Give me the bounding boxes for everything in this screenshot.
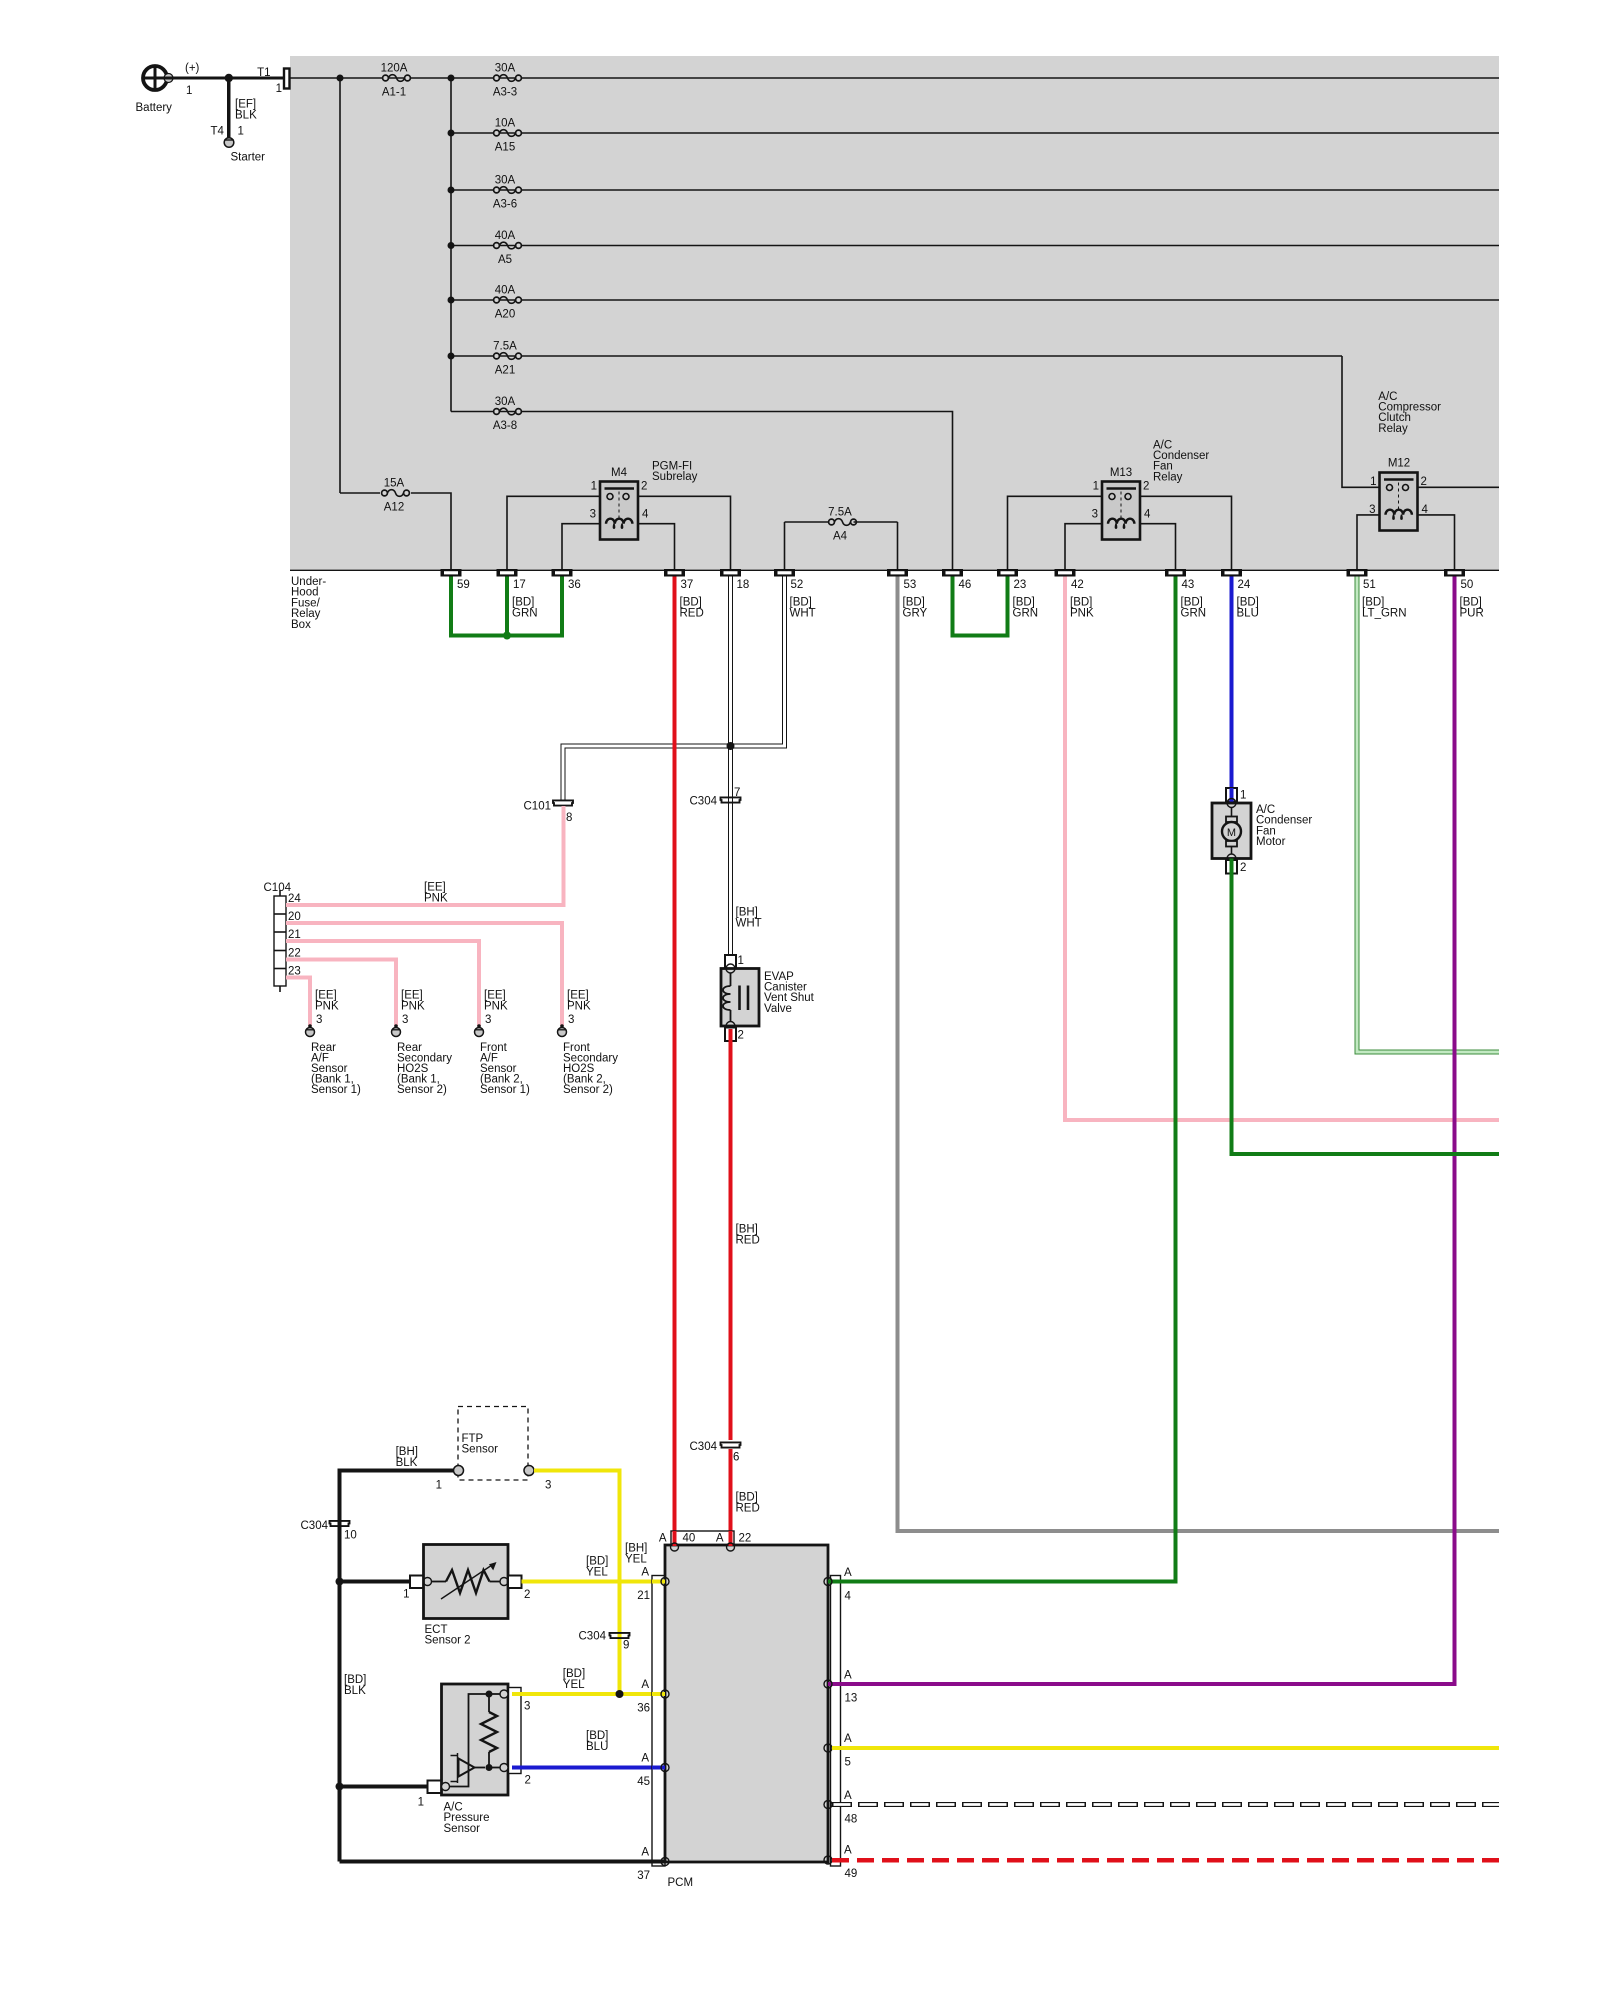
connector T1	[257, 67, 289, 95]
svg-text:A20: A20	[495, 309, 515, 321]
svg-text:24: 24	[288, 893, 301, 905]
connector C104	[264, 882, 292, 992]
fuse 30A A3-8	[493, 396, 522, 432]
black wire bottom to PCM A37	[340, 1860, 666, 1864]
connector tab 24	[1221, 569, 1251, 591]
svg-text:40A: 40A	[495, 285, 516, 297]
svg-text:2: 2	[524, 1589, 530, 1601]
svg-text:YEL: YEL	[563, 1679, 585, 1691]
pin 24	[288, 893, 301, 905]
PCM top pin labels	[659, 1533, 751, 1545]
pin 23	[288, 966, 301, 978]
connector C101	[524, 800, 574, 824]
yellow wire through bracket A36	[652, 1692, 665, 1696]
fan motor pin numbers	[1240, 790, 1246, 875]
pin 22	[288, 948, 301, 960]
EVAP terminal 2	[725, 1028, 736, 1042]
wire fuse row A5	[451, 245, 1499, 247]
EVAP pin numbers	[738, 955, 744, 1042]
svg-text:30A: 30A	[495, 175, 516, 187]
pin labels M12	[1369, 476, 1428, 516]
svg-text:PUR: PUR	[1460, 608, 1484, 620]
relay M12	[1380, 473, 1418, 531]
svg-text:M: M	[1227, 827, 1236, 839]
fuse 40A A20	[494, 285, 522, 321]
red wire C304-6 to PCM A22	[729, 1449, 733, 1546]
svg-text:7.5A: 7.5A	[493, 341, 517, 353]
wire M4 pin3 to 36	[562, 524, 600, 569]
battery B+ symbol	[142, 65, 174, 92]
connector tab 42	[1055, 569, 1084, 591]
wire M13 pin4 to 43	[1140, 524, 1176, 569]
ACP bracket	[509, 1688, 522, 1774]
label (+)	[185, 63, 200, 75]
label [BD] BLK	[344, 1674, 366, 1697]
svg-text:30A: 30A	[495, 396, 516, 408]
svg-text:3: 3	[402, 1014, 408, 1026]
svg-text:1: 1	[1240, 790, 1246, 802]
junction yellow	[616, 1690, 624, 1698]
pink wire C104-24 to C101	[286, 806, 564, 905]
junction bus x451	[448, 75, 455, 82]
label [BD] GRN at 23	[1013, 597, 1039, 620]
label [BD] BLU at 24	[1237, 597, 1259, 620]
svg-text:C304: C304	[579, 1631, 607, 1643]
svg-text:GRN: GRN	[1181, 608, 1207, 620]
blue wire ACP-2 to PCM A45	[512, 1766, 665, 1770]
svg-text:A: A	[844, 1790, 852, 1802]
label [BD] PUR at 50	[1460, 597, 1484, 620]
svg-text:PNK: PNK	[315, 1001, 339, 1013]
svg-text:3: 3	[485, 1014, 491, 1026]
svg-text:BLK: BLK	[235, 110, 257, 122]
svg-text:Sensor 1): Sensor 1)	[311, 1084, 361, 1096]
svg-text:1: 1	[591, 481, 597, 493]
svg-text:10: 10	[344, 1530, 357, 1542]
wire M12 pin2 to edge	[1418, 486, 1500, 488]
svg-text:1: 1	[738, 955, 744, 967]
light green wire 51 to edge	[1357, 577, 1499, 1053]
connector tab 46	[942, 569, 971, 591]
starter terminal	[224, 138, 234, 148]
svg-text:22: 22	[288, 948, 301, 960]
svg-text:2: 2	[738, 1030, 744, 1042]
dashed red wire A49	[832, 1858, 1499, 1863]
label [BD] LT_GRN at 51	[1362, 597, 1407, 620]
svg-text:4: 4	[845, 1591, 852, 1603]
svg-text:PNK: PNK	[424, 893, 448, 905]
label [BD] RED	[736, 1492, 760, 1515]
PCM top bracket	[671, 1531, 734, 1545]
svg-text:1: 1	[418, 1797, 424, 1809]
label [BD] BLU	[586, 1730, 608, 1753]
svg-text:PNK: PNK	[484, 1001, 508, 1013]
label PGM-FI Subrelay	[652, 461, 698, 484]
label ECT Sensor 2	[425, 1624, 471, 1647]
svg-text:A12: A12	[384, 502, 404, 514]
dashed white wire A48	[832, 1802, 1499, 1807]
ACP pin circles	[442, 1690, 509, 1791]
svg-text:37: 37	[637, 1870, 650, 1882]
svg-text:6: 6	[733, 1452, 739, 1464]
svg-text:24: 24	[1238, 579, 1251, 591]
svg-text:49: 49	[845, 1868, 858, 1880]
wire M4 pin1 to 17	[507, 496, 600, 569]
svg-text:Valve: Valve	[764, 1003, 792, 1015]
svg-text:3: 3	[590, 509, 596, 521]
svg-text:59: 59	[457, 579, 470, 591]
label M12	[1388, 458, 1410, 470]
svg-text:Motor: Motor	[1256, 836, 1286, 848]
white wire branch to C101	[563, 746, 733, 800]
svg-text:A: A	[641, 1753, 649, 1765]
relay M4	[600, 482, 638, 540]
label [BD] GRY at 53	[903, 597, 928, 620]
svg-text:Sensor 2): Sensor 2)	[563, 1084, 613, 1096]
sensor label x562	[563, 1042, 618, 1096]
label A/C Compressor Clutch Relay	[1378, 391, 1441, 435]
label [BD] RED at 37	[680, 597, 704, 620]
svg-text:Sensor 2: Sensor 2	[425, 1635, 471, 1647]
svg-text:7.5A: 7.5A	[828, 507, 852, 519]
label [BH] WHT	[736, 907, 762, 930]
gray wire 53 to edge	[898, 577, 1500, 1532]
ECT pin circles	[424, 1578, 509, 1586]
connector tab 17	[497, 569, 526, 591]
wire fuse row A15	[451, 132, 1499, 134]
wire A21 to M12 pin1	[1342, 356, 1380, 487]
connector tab 53	[887, 569, 916, 591]
svg-text:A21: A21	[495, 365, 515, 377]
svg-text:BLU: BLU	[586, 1741, 608, 1753]
svg-text:40A: 40A	[495, 230, 516, 242]
yellow wire A5 to edge	[832, 1746, 1499, 1750]
fan motor internals	[1222, 808, 1241, 855]
black wire to ECT	[340, 1580, 411, 1584]
svg-text:(+): (+)	[185, 63, 200, 75]
connector tab 23	[997, 569, 1026, 591]
label Under-Hood Fuse/Relay Box	[291, 576, 326, 631]
wire to starter	[227, 78, 230, 138]
EVAP terminal 1	[725, 955, 736, 969]
yellow wire FTP-3	[534, 1471, 620, 1695]
svg-text:20: 20	[288, 911, 301, 923]
EVAP canister vent shut valve body	[721, 969, 759, 1027]
junction row A3-6	[448, 187, 455, 194]
connector tab 18	[720, 569, 749, 591]
pin 3 sensor x310	[316, 1014, 322, 1026]
label [BD] GRN at 43	[1181, 597, 1207, 620]
svg-text:A: A	[641, 1567, 649, 1579]
svg-text:GRY: GRY	[903, 608, 928, 620]
wire A4 right to 53	[897, 522, 899, 569]
white wire 18 down to EVAP	[728, 577, 733, 956]
junction battery/starter	[225, 74, 233, 82]
svg-text:RED: RED	[736, 1235, 760, 1247]
svg-text:3: 3	[545, 1480, 551, 1492]
blue wire 24 to fan motor	[1230, 577, 1234, 791]
connector C304 pin 10	[301, 1520, 357, 1542]
svg-text:A: A	[716, 1533, 724, 1545]
svg-text:51: 51	[1363, 579, 1376, 591]
fan motor terminal 2	[1226, 860, 1237, 874]
wire M4 pin2 to 18	[638, 496, 731, 569]
svg-text:WHT: WHT	[736, 918, 762, 930]
fuse box bottom edge	[290, 569, 1499, 571]
FTP terminals	[454, 1466, 535, 1476]
label [EE] PNK sensor x562	[567, 990, 591, 1013]
svg-text:A5: A5	[498, 254, 512, 266]
svg-text:BLU: BLU	[1237, 608, 1259, 620]
svg-text:30A: 30A	[495, 63, 516, 75]
svg-text:A3-8: A3-8	[493, 420, 517, 432]
wire M12 pin4 to 50	[1418, 515, 1455, 569]
svg-text:YEL: YEL	[586, 1567, 608, 1579]
label T4	[211, 126, 225, 138]
svg-text:A: A	[844, 1670, 852, 1682]
svg-text:A4: A4	[833, 531, 848, 543]
wire M13 pin3 to 42	[1065, 524, 1102, 569]
purple wire 50 to PCM A13	[1453, 577, 1457, 1685]
pin 3 sensor x479	[485, 1014, 491, 1026]
wire M12 pin3 to 51	[1357, 515, 1380, 569]
green wire 59/17/36	[451, 577, 562, 640]
ECT resistor	[432, 1562, 501, 1599]
svg-text:1: 1	[276, 83, 282, 95]
PCM left bracket	[652, 1576, 665, 1867]
svg-text:WHT: WHT	[790, 608, 816, 620]
green wire A4 to vertical	[828, 1580, 1178, 1584]
A/C pressure sensor body	[442, 1684, 509, 1795]
junction row A21	[448, 353, 455, 360]
wire vertical bus x340	[339, 78, 341, 493]
svg-text:A15: A15	[495, 142, 515, 154]
ACP internal resistor	[481, 1691, 500, 1772]
connector tab 52	[774, 569, 803, 591]
yellow wire ECT to PCM A21	[522, 1580, 666, 1584]
fuse 30A A3-6	[493, 175, 522, 211]
svg-text:A1-1: A1-1	[382, 87, 406, 99]
svg-text:A3-6: A3-6	[493, 199, 517, 211]
pin 3 sensor x396	[402, 1014, 408, 1026]
PCM pin circles right	[824, 1578, 832, 1865]
svg-text:15A: 15A	[384, 478, 405, 490]
junction white wires	[727, 742, 735, 750]
wire M13 pin2 to 24	[1140, 496, 1232, 569]
label [EE] PNK sensor x479	[484, 990, 508, 1013]
ECT terminal 1	[410, 1576, 424, 1589]
svg-text:2: 2	[1421, 476, 1427, 488]
ACP amplifier	[451, 1753, 486, 1783]
black wire to ACP	[340, 1785, 428, 1789]
svg-text:A: A	[641, 1679, 649, 1691]
green wire fan motor to edge	[1232, 859, 1500, 1155]
pink wire C104-21 to sensor	[286, 941, 479, 1026]
svg-text:1: 1	[1370, 476, 1376, 488]
svg-text:3: 3	[568, 1014, 574, 1026]
label [BH] BLK	[396, 1446, 418, 1469]
bus row from T1	[289, 77, 1499, 79]
svg-text:1: 1	[238, 126, 244, 138]
wire fuse row A20	[451, 299, 1499, 301]
black junction ECT	[336, 1578, 344, 1586]
label [BD] GRN at 17	[512, 597, 538, 620]
under-hood fuse/relay box background	[290, 56, 1499, 571]
fan motor pin circles	[1227, 799, 1236, 864]
svg-text:2: 2	[525, 1775, 531, 1787]
svg-text:50: 50	[1461, 579, 1474, 591]
ECT sensor 2 body	[424, 1545, 509, 1619]
junction row A5	[448, 242, 455, 249]
wire fuse row A21	[451, 355, 1342, 357]
PCM pin circles left	[661, 1578, 669, 1866]
wire fuse row A3-6	[451, 189, 1499, 191]
label A/C Condenser Fan Relay	[1153, 439, 1209, 483]
svg-text:Starter: Starter	[231, 152, 266, 164]
sensor label x310	[311, 1042, 361, 1096]
blue wire through bracket A45	[652, 1766, 665, 1770]
PCM right pin labels	[844, 1567, 857, 1880]
svg-text:BLK: BLK	[344, 1685, 366, 1697]
pin 20	[288, 911, 301, 923]
starter label	[231, 152, 266, 164]
PCM pin circles top	[671, 1543, 735, 1551]
svg-text:21: 21	[288, 929, 301, 941]
PCM body	[665, 1545, 828, 1862]
fan motor terminal 1	[1226, 788, 1237, 803]
pin 3 sensor x562	[568, 1014, 574, 1026]
svg-text:17: 17	[513, 579, 526, 591]
svg-text:BLK: BLK	[396, 1457, 418, 1469]
svg-text:Relay: Relay	[1153, 471, 1183, 483]
ACP internal wire	[449, 1694, 489, 1787]
svg-text:48: 48	[845, 1814, 858, 1826]
wire fuse row A3-8 to tab 46	[451, 412, 953, 570]
pin labels M4	[590, 481, 649, 521]
sensor terminal x479	[475, 1024, 484, 1036]
ECT terminal 2	[508, 1576, 522, 1589]
svg-text:1: 1	[186, 85, 192, 97]
connector C304 pin 6	[690, 1441, 741, 1464]
red wires into PCM	[675, 1531, 731, 1546]
fuse 7.5A A4	[785, 507, 898, 543]
ECT pin numbers	[403, 1589, 530, 1602]
svg-text:A3-3: A3-3	[493, 87, 517, 99]
pink wire 42 to edge	[1065, 577, 1499, 1121]
svg-text:C101: C101	[524, 801, 552, 813]
svg-text:A: A	[844, 1845, 852, 1857]
svg-text:PNK: PNK	[401, 1001, 425, 1013]
svg-text:C304: C304	[301, 1520, 329, 1532]
pin 1 battery	[186, 85, 192, 97]
svg-text:13: 13	[845, 1693, 858, 1705]
connector tab 50	[1444, 569, 1473, 591]
svg-text:22: 22	[739, 1533, 752, 1545]
svg-text:2: 2	[1143, 481, 1149, 493]
connector tab 43	[1165, 569, 1194, 591]
svg-text:M4: M4	[611, 467, 628, 479]
pin 21	[288, 929, 301, 941]
svg-text:T4: T4	[211, 126, 225, 138]
fuse 15A A12	[340, 478, 451, 570]
label [EF] BLK	[235, 99, 257, 122]
svg-text:3: 3	[316, 1014, 322, 1026]
svg-text:37: 37	[681, 579, 694, 591]
sensor terminal x310	[306, 1024, 315, 1036]
PCM right bracket	[831, 1576, 841, 1867]
label [BH] RED	[736, 1224, 760, 1247]
svg-text:YEL: YEL	[625, 1554, 647, 1566]
svg-text:36: 36	[637, 1703, 650, 1715]
svg-text:40: 40	[683, 1533, 696, 1545]
svg-text:M12: M12	[1388, 458, 1410, 470]
svg-text:43: 43	[1182, 579, 1195, 591]
label M13	[1110, 467, 1132, 479]
svg-text:GRN: GRN	[512, 608, 538, 620]
svg-text:A: A	[641, 1847, 649, 1859]
green wire 46/23	[953, 577, 1008, 636]
pin 1 starter	[238, 126, 244, 138]
svg-text:1: 1	[403, 1589, 409, 1601]
svg-text:23: 23	[1014, 579, 1027, 591]
svg-text:8: 8	[566, 812, 572, 824]
label [BD] WHT at 52	[790, 597, 816, 620]
sensor terminal x562	[558, 1024, 567, 1036]
svg-text:Sensor: Sensor	[444, 1823, 481, 1835]
purple wire A13 from vertical	[828, 1682, 1457, 1686]
sensor label x396	[397, 1042, 452, 1096]
svg-text:C304: C304	[690, 1441, 718, 1453]
wire vertical bus x451	[450, 78, 452, 412]
label PCM	[668, 1877, 694, 1889]
svg-text:52: 52	[791, 579, 804, 591]
svg-text:42: 42	[1071, 579, 1084, 591]
fuse 120A A1-1	[381, 63, 411, 99]
connector tab 51	[1347, 569, 1376, 591]
pin labels M13	[1092, 481, 1151, 521]
A/C condenser fan motor body	[1212, 803, 1251, 859]
red wire EVAP to C304-6	[729, 1029, 733, 1440]
label [BD] PNK at 42	[1070, 597, 1094, 620]
svg-text:18: 18	[737, 579, 750, 591]
fuse 40A A5	[494, 230, 522, 266]
wire battery to T1	[167, 76, 284, 79]
svg-text:PCM: PCM	[668, 1877, 694, 1889]
label A/C Pressure Sensor	[444, 1801, 490, 1834]
svg-text:PNK: PNK	[567, 1001, 591, 1013]
svg-text:21: 21	[637, 1590, 650, 1602]
svg-text:Subrelay: Subrelay	[652, 471, 698, 483]
svg-text:Sensor 1): Sensor 1)	[480, 1084, 530, 1096]
svg-text:53: 53	[904, 579, 917, 591]
label [EE] PNK C104	[424, 882, 448, 905]
green wire 43 to PCM A4	[1174, 577, 1178, 1582]
white wire 52 down	[733, 577, 785, 747]
relay M13	[1102, 482, 1140, 540]
black wire through bracket A37	[652, 1860, 665, 1864]
connector tab 36	[552, 569, 581, 591]
fuse 7.5A A21	[493, 341, 521, 377]
junction row A20	[448, 297, 455, 304]
svg-text:10A: 10A	[495, 118, 516, 130]
junction bus x340	[337, 75, 344, 82]
wire A4 left to 52	[784, 522, 786, 569]
FTP sensor box	[458, 1407, 528, 1481]
connector tab 37	[664, 569, 693, 591]
svg-text:46: 46	[959, 579, 972, 591]
sensor terminal x396	[392, 1024, 401, 1036]
label FTP Sensor	[462, 1433, 499, 1456]
